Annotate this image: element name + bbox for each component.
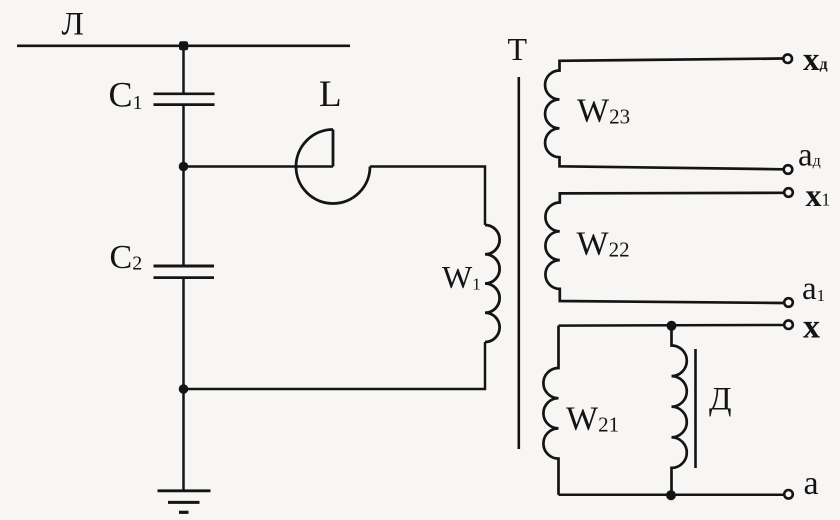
svg-text:a: a [804,465,819,502]
terminal a [784,490,793,499]
wire W1 bottom return [184,342,486,389]
winding W1 [485,225,500,342]
svg-text:W23: W23 [577,93,630,130]
wire L to W1 top [370,167,485,226]
winding W23 [545,59,783,170]
svg-text:Д: Д [709,382,732,418]
ground [158,491,211,513]
svg-text:W1: W1 [442,259,481,295]
svg-text:L: L [319,74,342,115]
wire left vertical upper [182,46,185,93]
terminal aд [784,165,793,174]
junction node between C1 and C2 [179,162,189,172]
svg-text:xд: xд [803,42,828,78]
core bar of Д [694,349,697,468]
wire bottom return of W21 [559,494,785,497]
svg-text:C2: C2 [110,239,143,276]
terminal xд [783,54,792,63]
svg-text:W21: W21 [566,401,619,438]
winding Д coil [672,326,687,495]
svg-text:Л: Л [62,7,84,43]
junction top bus [179,41,188,50]
capacitor C1 [154,94,215,105]
wire left vertical middle [182,105,185,266]
svg-text:x1: x1 [806,177,831,213]
svg-text:aд: aд [798,138,821,174]
capacitor C2 [154,266,215,278]
winding W21 [543,326,558,495]
wire left vertical lower [182,278,185,490]
terminal x1 [784,188,793,197]
terminal a1 [784,298,793,307]
junction node to W1 return [179,384,189,394]
svg-text:a1: a1 [802,271,825,307]
inductor L loop [296,130,370,204]
wire node to L loop [184,165,334,168]
svg-text:x: x [803,309,820,346]
svg-text:C1: C1 [109,75,143,115]
junction net x [667,321,677,331]
winding W22 [545,193,783,303]
svg-text:W22: W22 [577,226,630,263]
terminal x [784,320,793,329]
wire net x [559,324,785,327]
transformer core T [517,77,520,449]
svg-text:T: T [508,31,528,67]
wire top bus [17,44,350,47]
junction bottom Д [666,490,676,500]
